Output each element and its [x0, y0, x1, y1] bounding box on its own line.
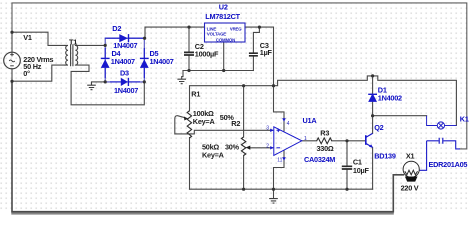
svg-text:1000µF: 1000µF [195, 49, 219, 58]
AC source V1 [4, 52, 21, 69]
wire R1 bottom lead [189, 138, 191, 190]
wire op-amp V- pin11 to ground bus [274, 151, 285, 190]
value R2 Key=A [202, 150, 225, 159]
regulator pin name COMMON [216, 38, 235, 43]
svg-text:U2: U2 [219, 3, 228, 12]
pin number 4 [287, 121, 290, 127]
label D1 [378, 86, 387, 95]
wire op-amp output to R3 [302, 140, 317, 142]
svg-text:220 V: 220 V [401, 184, 419, 193]
svg-text:R3: R3 [320, 129, 329, 138]
transistor Q2 emitter arrowhead [369, 144, 373, 147]
op-amp power pin arrowheads [282, 118, 286, 122]
regulator pin name VREG [230, 26, 242, 31]
value D3 1N4007 [114, 86, 138, 95]
resistor R3 330 zigzag [317, 138, 332, 144]
op-amp U1A CA0324M triangle [274, 127, 302, 156]
wire C3 top lead with jog from regulator output node [253, 27, 259, 53]
label X1 [406, 151, 415, 160]
svg-text:EDR201A05: EDR201A05 [429, 160, 468, 169]
value 220 V [401, 184, 419, 193]
label R2 [231, 119, 240, 128]
svg-text:T1: T1 [69, 38, 77, 47]
label C1 [353, 158, 362, 167]
capacitor C1 10uF [342, 166, 352, 169]
wire C2 top lead [188, 27, 190, 52]
wire ground bus bottom [190, 188, 373, 190]
value 1uF [260, 48, 273, 57]
lamp X1 [403, 161, 419, 177]
capacitor C3 1uF [249, 53, 258, 56]
wire ground stem below main ground bus [273, 189, 275, 198]
diode D1 1N4002 flyback [368, 93, 377, 102]
value CA0324M [304, 155, 335, 164]
potentiometer R2 50k zigzag body [241, 137, 245, 156]
op-amp input pin arrowheads [270, 129, 274, 132]
wire 12V rail to the right with jogs [274, 76, 457, 126]
value R1 Key=A [193, 117, 216, 126]
label D4 [112, 49, 122, 58]
wire op-amp V+ pin4 feed [274, 86, 285, 131]
wire R2 top lead [243, 86, 245, 137]
wire R3 to Q2 base [332, 140, 366, 142]
svg-text:1N4007: 1N4007 [150, 57, 174, 66]
svg-text:2: 2 [266, 144, 269, 150]
label K1 [460, 114, 469, 123]
value D5 1N4007 [150, 57, 174, 66]
svg-text:D3: D3 [120, 69, 129, 78]
svg-text:CA0324M: CA0324M [304, 155, 335, 164]
wire 12V feed left to potentiometers [190, 86, 274, 111]
svg-text:10µF: 10µF [353, 166, 370, 175]
ground below common bus [177, 79, 186, 84]
wire lamp-loop top rail from V1 top node across the sheet [12, 3, 467, 149]
value 330Ohm [317, 144, 334, 153]
transistor Q2 BD139 [366, 133, 373, 147]
wire collector node to relay coil [373, 115, 427, 117]
value 220 Vrms [23, 55, 53, 64]
label D3 [120, 69, 129, 78]
ground main below ground bus [269, 199, 278, 204]
wire V1 bottom to transformer primary bottom [12, 65, 65, 81]
label R3 [320, 129, 329, 138]
wire lamp-loop bottom return [12, 81, 403, 212]
wire bridge left vertical [104, 38, 106, 82]
label D5 [150, 49, 159, 58]
wire R2 wiper to op-amp inverting input [251, 147, 273, 149]
wire R2 bottom lead [243, 156, 245, 190]
potentiometer R1 100k zigzag body [187, 111, 191, 138]
regulator pin name LINE VOLTAGE [207, 26, 226, 36]
wire bridge negative stub to ground [92, 81, 106, 83]
svg-text:1µF: 1µF [260, 48, 273, 57]
value 50 Hz [23, 62, 41, 71]
label Q2 [374, 123, 383, 132]
label D2 [112, 24, 121, 33]
label V1 [23, 33, 32, 42]
value D4 1N4007 [111, 57, 135, 66]
svg-text:VOLTAGE: VOLTAGE [207, 32, 226, 37]
wire regulator COMMON lead [223, 42, 225, 71]
capacitor C2 1000uF [184, 52, 194, 55]
wire transformer secondary top to bridge [75, 44, 105, 46]
value LM7812CT [205, 12, 240, 21]
relay K1 coil circle [427, 116, 457, 129]
wire bridge right vertical [143, 38, 145, 82]
svg-text:VREG: VREG [230, 26, 242, 31]
wire Q2 collector riser [372, 116, 374, 134]
wire V1 minus lead [11, 69, 13, 81]
svg-text:LM7812CT: LM7812CT [205, 12, 240, 21]
svg-text:U1A: U1A [303, 116, 318, 125]
value 0 deg [23, 69, 30, 78]
pin number 3 [266, 126, 269, 132]
svg-text:Q2: Q2 [374, 123, 383, 132]
value 1N4002 [378, 93, 402, 102]
ground at bridge negative output [87, 82, 96, 90]
diode D2 1N4007 [105, 34, 145, 42]
wire D1 cathode lead [372, 76, 374, 94]
pin number 2 [266, 144, 269, 150]
value 1000uF [195, 49, 219, 58]
value 100kOhm [193, 109, 214, 118]
wire C2 bottom lead [188, 56, 190, 71]
wire C1 bottom lead [346, 170, 348, 190]
svg-text:X1: X1 [406, 151, 415, 160]
wire transformer secondary bottom loop to bridge lower right [71, 65, 144, 105]
wire Q2 emitter drop to ground bus [372, 148, 374, 190]
svg-text:R2: R2 [231, 119, 240, 128]
svg-text:Key=A: Key=A [193, 117, 216, 126]
svg-text:Key=A: Key=A [202, 150, 225, 159]
svg-text:1N4007: 1N4007 [114, 86, 138, 95]
relay K1 contact [419, 138, 460, 171]
value EDR201A05 [429, 160, 468, 169]
value 10uF [353, 166, 370, 175]
wire C3 bottom lead [252, 56, 254, 70]
value R2 30% [225, 142, 240, 151]
value BD139 [374, 152, 396, 161]
svg-text:V1: V1 [23, 33, 32, 42]
svg-text:3: 3 [266, 126, 269, 132]
svg-text:K1: K1 [460, 114, 469, 123]
label R1 [191, 90, 200, 99]
label C3 [260, 41, 269, 50]
wire R1 wiper to op-amp non-inverting input [175, 116, 273, 134]
wire ground lead below common bus [182, 71, 183, 80]
label C2 [195, 42, 204, 51]
pin number 1 [304, 136, 307, 142]
diode D5 1N4007 [140, 48, 149, 78]
voltage regulator U2 LM7812CT box [205, 23, 246, 42]
svg-text:1N4007: 1N4007 [111, 57, 135, 66]
wire bridge output riser to regulator input [145, 27, 205, 38]
wire bridge top rail [105, 37, 145, 39]
wire common bus C2/COMMON/C3 [183, 70, 253, 72]
svg-text:D2: D2 [112, 24, 121, 33]
svg-text:4: 4 [287, 121, 290, 127]
pin number 11 [277, 158, 282, 164]
svg-text:0°: 0° [23, 69, 30, 78]
svg-text:R1: R1 [191, 90, 200, 99]
value 50kOhm [202, 142, 219, 151]
lamp X1 base [405, 177, 418, 182]
label T1 [69, 38, 77, 47]
wire V1 plus lead [11, 32, 13, 52]
potentiometer R2 wiper arrow [246, 146, 251, 150]
svg-text:330Ω: 330Ω [317, 144, 334, 153]
svg-text:11: 11 [277, 158, 282, 164]
value D2 1N4007 [113, 41, 137, 50]
label U2 [219, 3, 228, 12]
wire D1 anode lead [372, 102, 374, 116]
value R1 50% [220, 113, 235, 122]
wire regulator output to main node [245, 27, 274, 86]
diode D3 1N4007 [110, 78, 140, 86]
label U1A [303, 116, 318, 125]
potentiometer R1 wiper arrow [184, 117, 188, 121]
wire C1 top lead [346, 141, 348, 166]
svg-text:1N4002: 1N4002 [378, 93, 402, 102]
svg-text:1: 1 [304, 136, 307, 142]
wire V1 top to transformer primary top [12, 32, 65, 45]
svg-text:BD139: BD139 [374, 152, 396, 161]
svg-text:COMMON: COMMON [216, 38, 235, 43]
svg-text:30%: 30% [225, 142, 240, 151]
transformer T1 [65, 44, 78, 66]
diode D4 1N4007 [101, 48, 110, 78]
wire bridge bottom rail [105, 81, 144, 83]
sheet bottom border band [11, 211, 394, 214]
